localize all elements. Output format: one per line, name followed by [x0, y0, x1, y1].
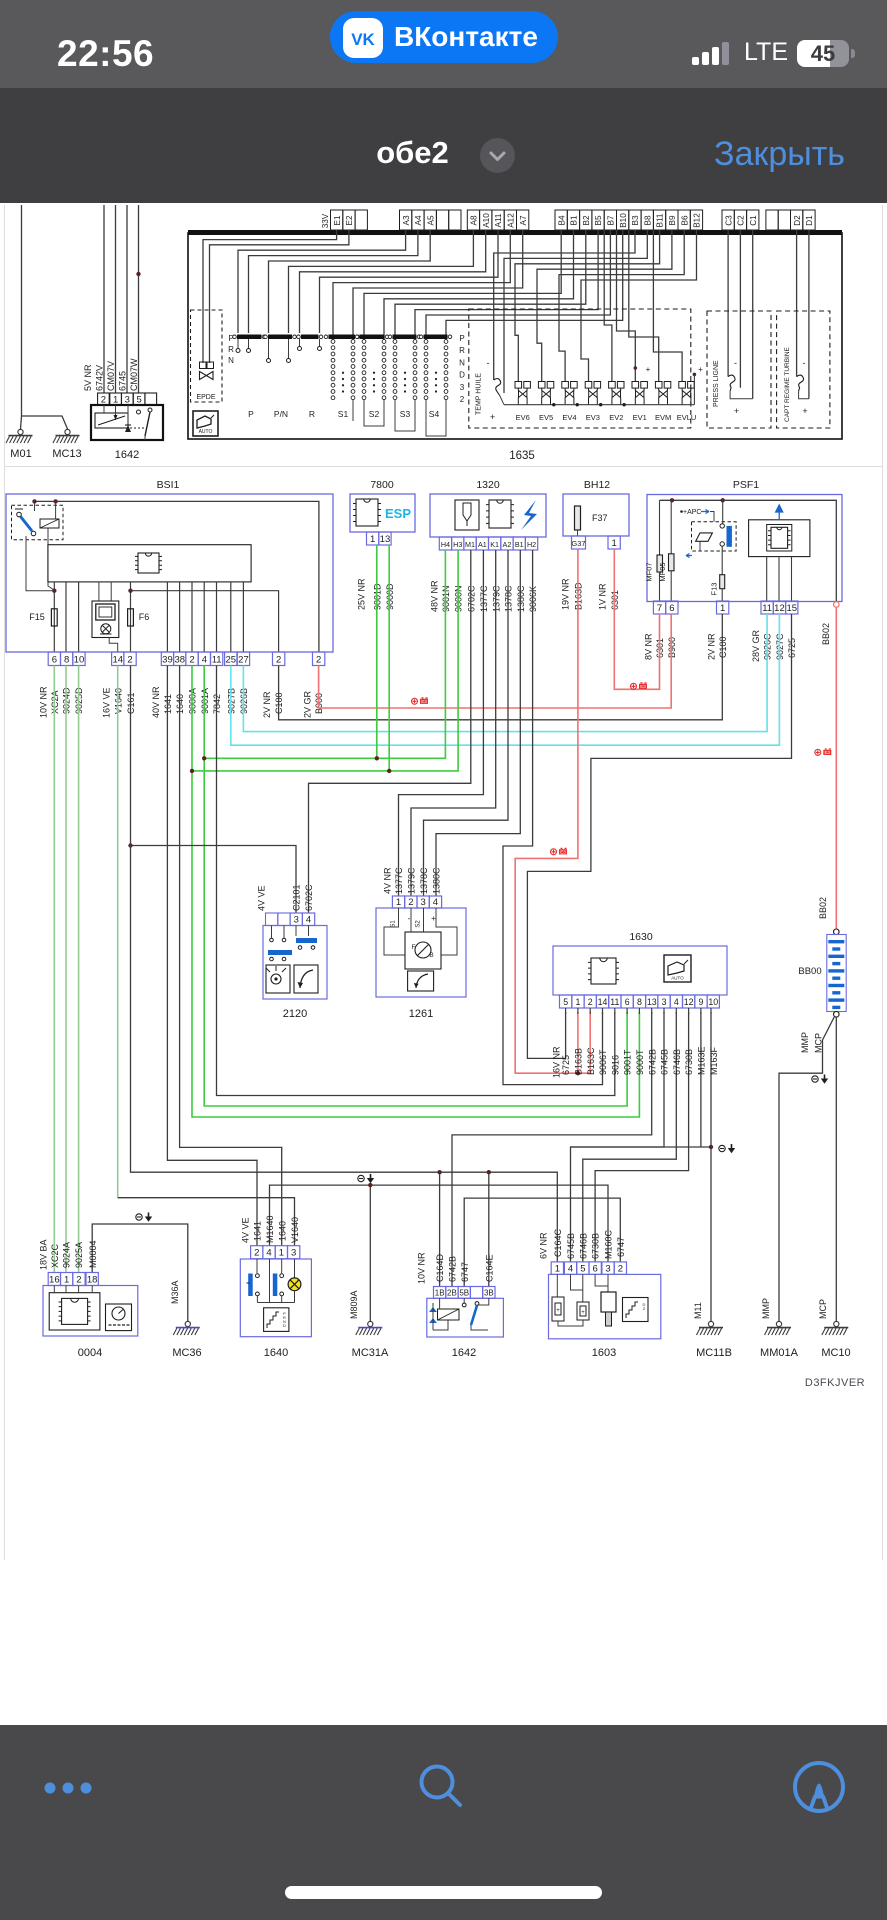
PSF1 IC box: [749, 520, 810, 557]
1642b diodes: [429, 1307, 437, 1323]
svg-text:11: 11: [762, 603, 772, 614]
svg-text:PSF1: PSF1: [733, 479, 759, 491]
svg-text:4V VE: 4V VE: [257, 885, 267, 911]
svg-text:EPDE: EPDE: [196, 394, 215, 401]
svg-text:MM01A: MM01A: [760, 1347, 799, 1359]
svg-text:9: 9: [698, 997, 703, 1007]
svg-text:11: 11: [610, 997, 619, 1007]
wire to ground M01: [21, 205, 23, 416]
branch 9000N to 1320: [192, 550, 458, 771]
svg-text:10: 10: [708, 997, 718, 1007]
wire staircase-left 12: [415, 230, 598, 340]
svg-text:D1: D1: [805, 215, 814, 226]
wire staircase-left 4: [289, 230, 474, 333]
1640 lamp: [294, 1259, 296, 1278]
wire staircase-left 9: [364, 230, 561, 340]
branch 9001D to 7800: [376, 545, 378, 758]
svg-text:M11: M11: [693, 1302, 703, 1319]
svg-text:1641: 1641: [253, 1221, 263, 1241]
svg-text:M0004: M0004: [88, 1240, 98, 1268]
1640 switch 2: [281, 1259, 283, 1273]
svg-text:XC2C: XC2C: [50, 1243, 60, 1268]
svg-text:B2: B2: [582, 215, 591, 225]
svg-text:P: P: [459, 334, 464, 343]
net BB02 (red): PSF1 to battery BB00: [835, 607, 837, 929]
PSF1 IC outputs: [766, 557, 768, 601]
svg-text:5: 5: [136, 395, 141, 406]
wires E1,E2 to EPDE: [203, 230, 337, 363]
wire to TEMP HUILE -: [494, 230, 635, 380]
svg-text:A5: A5: [426, 215, 435, 225]
net 9026: BSI1 9026B to PSF1 9026C (cyan): [243, 614, 767, 732]
svg-text:CM07W: CM07W: [129, 358, 139, 391]
junction 9001: [202, 756, 206, 760]
svg-text:2B: 2B: [447, 1288, 457, 1297]
svg-text:5: 5: [580, 1263, 585, 1274]
wire B to EV6: [515, 230, 660, 381]
1603 plunger: [595, 1274, 608, 1286]
svg-text:+: +: [431, 914, 436, 923]
svg-text:1603: 1603: [592, 1347, 616, 1359]
ground symbol near MC31A rail: [358, 1175, 364, 1181]
svg-text:1: 1: [575, 997, 580, 1007]
svg-text:9024A: 9024A: [62, 1242, 72, 1268]
net 1379C: 1320 to 1261 pin2: [411, 550, 496, 896]
svg-text:6742V: 6742V: [95, 365, 105, 391]
svg-text:MCP: MCP: [818, 1299, 828, 1319]
svg-text:EVLU: EVLU: [677, 413, 697, 422]
svg-text:4V NR: 4V NR: [383, 867, 393, 894]
junction C2101: [128, 843, 132, 847]
svg-text:S1: S1: [391, 920, 397, 928]
PSF1 pins: [653, 601, 665, 614]
net 6746B: 1630 to 1603 pin5: [583, 1012, 677, 1262]
net 6747: 1642 pin5B to 1603 pin2: [464, 1198, 620, 1286]
svg-text:K1: K1: [490, 540, 499, 549]
dashed box PRESS LIGNE: [707, 311, 771, 428]
svg-text:A8: A8: [470, 215, 479, 225]
svg-text:9016: 9016: [610, 1055, 620, 1075]
svg-text:7: 7: [657, 603, 662, 614]
junction C164D: [437, 1170, 441, 1174]
net 1377C: 1320 to 1261 pin1: [399, 550, 484, 896]
svg-text:D: D: [459, 371, 465, 380]
svg-text:-: -: [803, 358, 806, 368]
svg-text:R: R: [459, 346, 465, 355]
battery ref +E3 on 6301: [631, 683, 637, 689]
net 6730B: 1630 to 1603 pin6: [595, 1012, 689, 1262]
column bottom rails S2 S3 S4: [352, 399, 354, 421]
gear actuator 1603: [549, 1274, 661, 1338]
junction 9000: [190, 769, 194, 773]
svg-text:M1640: M1640: [265, 1215, 275, 1243]
S1-S4 switch circle columns: [331, 340, 448, 400]
wire staircase-left 14: [446, 230, 623, 340]
svg-text:1: 1: [720, 603, 725, 614]
svg-text:F15: F15: [29, 612, 45, 622]
svg-text:A12: A12: [507, 213, 516, 228]
svg-text:B163C: B163C: [586, 1047, 596, 1075]
net 6301 (red): BH12 pin1 to PSF1 pin7: [614, 549, 659, 689]
net 1380C: 1320 to 1261 pin4: [436, 550, 520, 896]
svg-text:3: 3: [294, 915, 299, 926]
svg-text:4: 4: [568, 1263, 573, 1274]
branch C164D: [439, 1172, 441, 1286]
wire pin5 1642 (CM07W): [138, 205, 140, 393]
net 6702C: 1320 to 2120 pin4: [309, 550, 471, 913]
svg-text:25V NR: 25V NR: [357, 578, 367, 610]
net 6745B: 1630 to 1603 pin4 + M163E/M163F to MC11B: [571, 1012, 665, 1262]
svg-text:4V VE: 4V VE: [241, 1217, 251, 1243]
svg-text:2120: 2120: [283, 1008, 307, 1020]
svg-text:1630: 1630: [629, 931, 653, 943]
svg-text:6746B: 6746B: [578, 1233, 588, 1259]
P contact: [237, 339, 239, 348]
wire staircase-left 7: [333, 230, 510, 340]
svg-text:C2101: C2101: [292, 884, 302, 911]
ground M01: [18, 429, 23, 434]
1320 lightning bolt: [521, 500, 537, 530]
svg-text:MC31A: MC31A: [352, 1347, 389, 1359]
junction M809A: [368, 1183, 372, 1187]
BSI1 box: [6, 494, 333, 652]
svg-text:2: 2: [618, 1263, 623, 1274]
svg-text:48V NR: 48V NR: [430, 580, 440, 612]
svg-text:EV6: EV6: [516, 413, 530, 422]
long wire XC2A (pale green): [53, 666, 55, 1273]
svg-text:1640: 1640: [277, 1221, 287, 1241]
svg-text:S2: S2: [369, 409, 380, 419]
wire staircase-left 3: [269, 230, 431, 333]
AUTO shift symbol: [193, 411, 218, 436]
svg-text:1: 1: [279, 1248, 284, 1259]
svg-text:2: 2: [101, 395, 106, 406]
svg-text:18: 18: [87, 1275, 98, 1286]
svg-text:10V NR: 10V NR: [39, 686, 49, 718]
dashboard switch 1640: [240, 1259, 311, 1337]
BSI1 pin stubs: [53, 582, 55, 652]
svg-text:40V NR: 40V NR: [151, 686, 161, 718]
svg-text:6745B: 6745B: [660, 1049, 670, 1075]
svg-text:E3: E3: [421, 699, 427, 704]
svg-text:6730B: 6730B: [684, 1049, 694, 1075]
1642b relay coil: [438, 1309, 460, 1320]
svg-text:8: 8: [637, 997, 642, 1007]
svg-text:10V NR: 10V NR: [417, 1252, 427, 1284]
net M163E: [700, 1012, 702, 1147]
svg-text:27: 27: [238, 655, 249, 666]
svg-text:1640: 1640: [264, 1347, 288, 1359]
svg-text:4: 4: [306, 915, 311, 926]
svg-text:3: 3: [291, 1248, 296, 1259]
1630 pin stubs: [565, 1008, 567, 1014]
fuse box BH12: [563, 494, 629, 536]
BSI1 pin boxes: [48, 652, 60, 666]
brake switch 2120: [263, 926, 327, 1000]
svg-text:3: 3: [421, 897, 426, 908]
svg-text:38: 38: [174, 655, 185, 666]
svg-text:18V BA: 18V BA: [39, 1239, 49, 1270]
1642b switch: [463, 1298, 465, 1303]
svg-text:13: 13: [380, 534, 391, 545]
svg-text:1642: 1642: [115, 449, 139, 461]
BSI1 microcontroller: [138, 553, 159, 573]
wire staircase-left 1: [238, 230, 406, 333]
svg-text:B4: B4: [557, 215, 566, 225]
wire B10 to EV1: [617, 230, 636, 381]
wire B7 to EV2: [604, 230, 612, 381]
7800 chip: [356, 499, 378, 526]
svg-text:1320: 1320: [476, 479, 500, 491]
connector pins of relay 1642: [98, 393, 110, 405]
svg-text:C1: C1: [749, 215, 758, 226]
drop to ground MC31A: [369, 1185, 371, 1321]
svg-text:B5: B5: [594, 215, 603, 225]
svg-text:H2: H2: [527, 540, 536, 549]
P/N contacts: [268, 339, 270, 358]
wire staircase-left 5: [300, 230, 486, 333]
BSI1 internal relay coil: [55, 501, 57, 519]
fuse F13: [721, 546, 723, 575]
svg-text:5: 5: [563, 997, 568, 1007]
net C100: BSI1 to PSF1 pin1: [279, 614, 723, 720]
1630 horn/AUTO symbol: [664, 955, 691, 982]
svg-text:6746B: 6746B: [672, 1049, 682, 1075]
svg-text:5B: 5B: [459, 1288, 469, 1297]
svg-text:1: 1: [113, 395, 118, 406]
svg-text:S1: S1: [338, 409, 349, 419]
svg-text:19V NR: 19V NR: [561, 578, 571, 610]
1261 pins: [392, 896, 404, 908]
svg-text:R: R: [228, 345, 234, 354]
svg-text:M809A: M809A: [349, 1290, 359, 1319]
svg-text:14: 14: [112, 655, 123, 666]
junction: [32, 499, 36, 503]
1603 staircase symbol: [623, 1298, 649, 1322]
solenoid valve EV3: [585, 382, 600, 405]
long wire 9025D (pale green): [78, 666, 80, 1273]
svg-text:13: 13: [647, 997, 657, 1007]
1603 solenoid B: [571, 1274, 583, 1290]
svg-text:2: 2: [254, 1248, 259, 1259]
junction M163F: [709, 1145, 713, 1149]
net C161: BSI1 to 1642/1603 connectors: [131, 666, 558, 1262]
wire to TEMP HUILE +: [504, 230, 647, 393]
svg-text:MC13: MC13: [52, 448, 81, 460]
svg-text:B7: B7: [607, 215, 616, 225]
svg-text:16V NR: 16V NR: [552, 1046, 562, 1078]
junction 9001D: [375, 756, 379, 760]
svg-text:25: 25: [225, 655, 236, 666]
battery BB00: [834, 929, 840, 935]
svg-text:9000T: 9000T: [635, 1049, 645, 1075]
turbine speed sensor: [797, 375, 804, 391]
net M1640/M160C ground rail: [270, 1185, 609, 1262]
net V1640 (green): [117, 666, 119, 1198]
svg-text:5V NR: 5V NR: [83, 364, 93, 391]
svg-text:MMP: MMP: [761, 1298, 771, 1319]
svg-text:-: -: [487, 358, 490, 368]
PSF1 top rail: [660, 500, 837, 601]
EV common rail: [504, 404, 687, 406]
page border (decorative, light): [5, 205, 883, 1560]
svg-text:MCP: MCP: [814, 1033, 824, 1053]
svg-text:6747: 6747: [616, 1237, 626, 1257]
BSI1 pin stubs right: [166, 582, 168, 652]
telecoding display unit: [98, 582, 100, 601]
svg-text:R: R: [309, 409, 315, 419]
wire MCP from BB00: [835, 1017, 837, 1321]
branch B163B: [577, 1012, 579, 1073]
svg-text:A7: A7: [519, 215, 528, 225]
PSF1 relay dashed box: [692, 522, 737, 551]
svg-text:N: N: [228, 356, 234, 365]
svg-text:MMP: MMP: [800, 1032, 810, 1053]
svg-text:11: 11: [212, 655, 222, 666]
bus bar end contacts: [233, 335, 237, 339]
junction 9000D: [387, 769, 391, 773]
long wire 9024D (pale green): [65, 666, 67, 1273]
svg-text:TEMP HUILE: TEMP HUILE: [476, 373, 483, 415]
coil output arrow: [686, 554, 692, 558]
svg-text:8: 8: [64, 655, 69, 666]
svg-text:EV5: EV5: [539, 413, 553, 422]
svg-text:6: 6: [625, 997, 630, 1007]
branch 9000D to 7800: [388, 545, 390, 771]
svg-text:33V: 33V: [321, 213, 330, 228]
svg-text:1: 1: [64, 1275, 69, 1286]
svg-text:E1: E1: [333, 215, 342, 225]
svg-text:+: +: [698, 365, 703, 374]
PSF1 relay coil: [696, 533, 713, 541]
BSI1 relay dashed box: [12, 505, 64, 540]
PSF1 relay switch: [720, 524, 724, 528]
svg-text:1: 1: [612, 538, 617, 549]
svg-text:B3: B3: [631, 215, 640, 225]
svg-text:M36A: M36A: [170, 1280, 180, 1304]
solenoid valve EV6: [515, 382, 530, 405]
svg-text:1377C: 1377C: [394, 867, 404, 894]
0004 pin stubs: [53, 1286, 55, 1293]
svg-text:F13: F13: [710, 583, 719, 596]
svg-text:1V NR: 1V NR: [598, 583, 608, 610]
svg-text:A3: A3: [402, 215, 411, 225]
wire MMP from BB00: [779, 1017, 835, 1322]
svg-text:3: 3: [662, 997, 667, 1007]
BH12 pins: [572, 536, 586, 549]
svg-text:28V GR: 28V GR: [751, 629, 761, 662]
net 1640: BSI1 to 1640 pin1: [180, 666, 282, 1246]
svg-text:+: +: [802, 406, 807, 416]
2120 eye symbol: [266, 965, 290, 993]
svg-text:CM07V: CM07V: [106, 361, 116, 391]
wires D2,D1 to CAPT REGIME TURBINE: [796, 230, 798, 377]
svg-text:2: 2: [189, 655, 194, 666]
BSI1 top rail: [35, 501, 319, 652]
BSI1 internal switch: [34, 501, 36, 511]
ground MC13: [65, 429, 70, 434]
svg-text:C164C: C164C: [553, 1228, 563, 1257]
PSF1 blue bar: [727, 526, 732, 547]
solenoid valve EV4: [562, 382, 577, 405]
svg-text:1B: 1B: [435, 1288, 445, 1297]
svg-text:C164E: C164E: [484, 1254, 494, 1282]
svg-text:15: 15: [786, 603, 797, 614]
BSI1 C100 rail: [131, 591, 279, 652]
svg-text:6: 6: [52, 655, 57, 666]
svg-text:3: 3: [605, 1263, 610, 1274]
svg-text:2: 2: [276, 655, 281, 666]
svg-text:1635: 1635: [509, 450, 535, 462]
solenoid valve EVM: [655, 382, 670, 405]
svg-text:4: 4: [266, 1248, 271, 1259]
svg-text:A2: A2: [503, 540, 512, 549]
wire B8 to EVLU: [653, 230, 682, 381]
svg-text:6725: 6725: [561, 1055, 571, 1075]
svg-text:B: B: [429, 952, 433, 959]
svg-text:+: +: [646, 365, 651, 374]
svg-text:C164D: C164D: [435, 1253, 445, 1282]
solenoid valve EV2: [609, 382, 624, 405]
svg-text:EVM: EVM: [655, 413, 671, 422]
svg-text:EV4: EV4: [562, 413, 576, 422]
svg-text:9006T: 9006T: [598, 1049, 608, 1075]
1630 chip: [591, 958, 616, 984]
svg-text:BSI1: BSI1: [157, 479, 180, 491]
svg-text:P: P: [248, 409, 254, 419]
svg-text:6742B: 6742B: [448, 1256, 458, 1282]
fuse F6: [128, 609, 134, 626]
ECU 1635 outline: [188, 233, 842, 439]
PSF1 up arrow: [776, 505, 783, 519]
junction on CM07W wire: [136, 272, 140, 276]
wire bridge M01-MC13: [22, 416, 68, 429]
fuse MF05: [670, 500, 672, 554]
net B163D (red): BH12 G37 to 1630 B163B/B163C: [515, 549, 590, 1073]
svg-text:1642: 1642: [452, 1347, 476, 1359]
junction F15: [52, 589, 56, 593]
wire staircase-left 6: [320, 230, 499, 333]
svg-text:4: 4: [433, 897, 438, 908]
svg-text:+APC: +APC: [683, 509, 701, 516]
EPDE solenoid: [191, 310, 223, 402]
svg-text:6745: 6745: [118, 371, 128, 391]
svg-text:CAPT REGIME TURBINE: CAPT REGIME TURBINE: [784, 346, 791, 422]
svg-text:1380C: 1380C: [432, 867, 442, 894]
net 6725: PSF1 pin15 to 1630 pin5: [527, 614, 791, 1058]
svg-text:MC11B: MC11B: [696, 1347, 732, 1359]
svg-text:ESP: ESP: [385, 506, 411, 521]
svg-text:BB02: BB02: [821, 623, 831, 645]
svg-text:0004: 0004: [78, 1347, 102, 1359]
svg-text:B11: B11: [656, 213, 665, 227]
junction C100 rail: [128, 589, 132, 593]
svg-text:-: -: [734, 358, 737, 368]
svg-text:10: 10: [74, 655, 85, 666]
svg-text:P/N: P/N: [274, 409, 288, 419]
net 9006K/9006T: 1320 to 1630: [503, 550, 603, 1085]
svg-text:PRESS LIGNE: PRESS LIGNE: [713, 360, 720, 407]
svg-text:H3: H3: [453, 540, 462, 549]
svg-text:2: 2: [588, 997, 593, 1007]
net C2101: BSI1 C161 branch to 2120 pin3: [131, 846, 297, 914]
svg-text:B1: B1: [515, 540, 524, 549]
svg-text:MC10: MC10: [821, 1347, 850, 1359]
pressure switch: [728, 375, 735, 391]
svg-text:8V NR: 8V NR: [644, 633, 654, 660]
wire B to EV4: [559, 230, 684, 381]
svg-text:9025A: 9025A: [74, 1242, 84, 1268]
